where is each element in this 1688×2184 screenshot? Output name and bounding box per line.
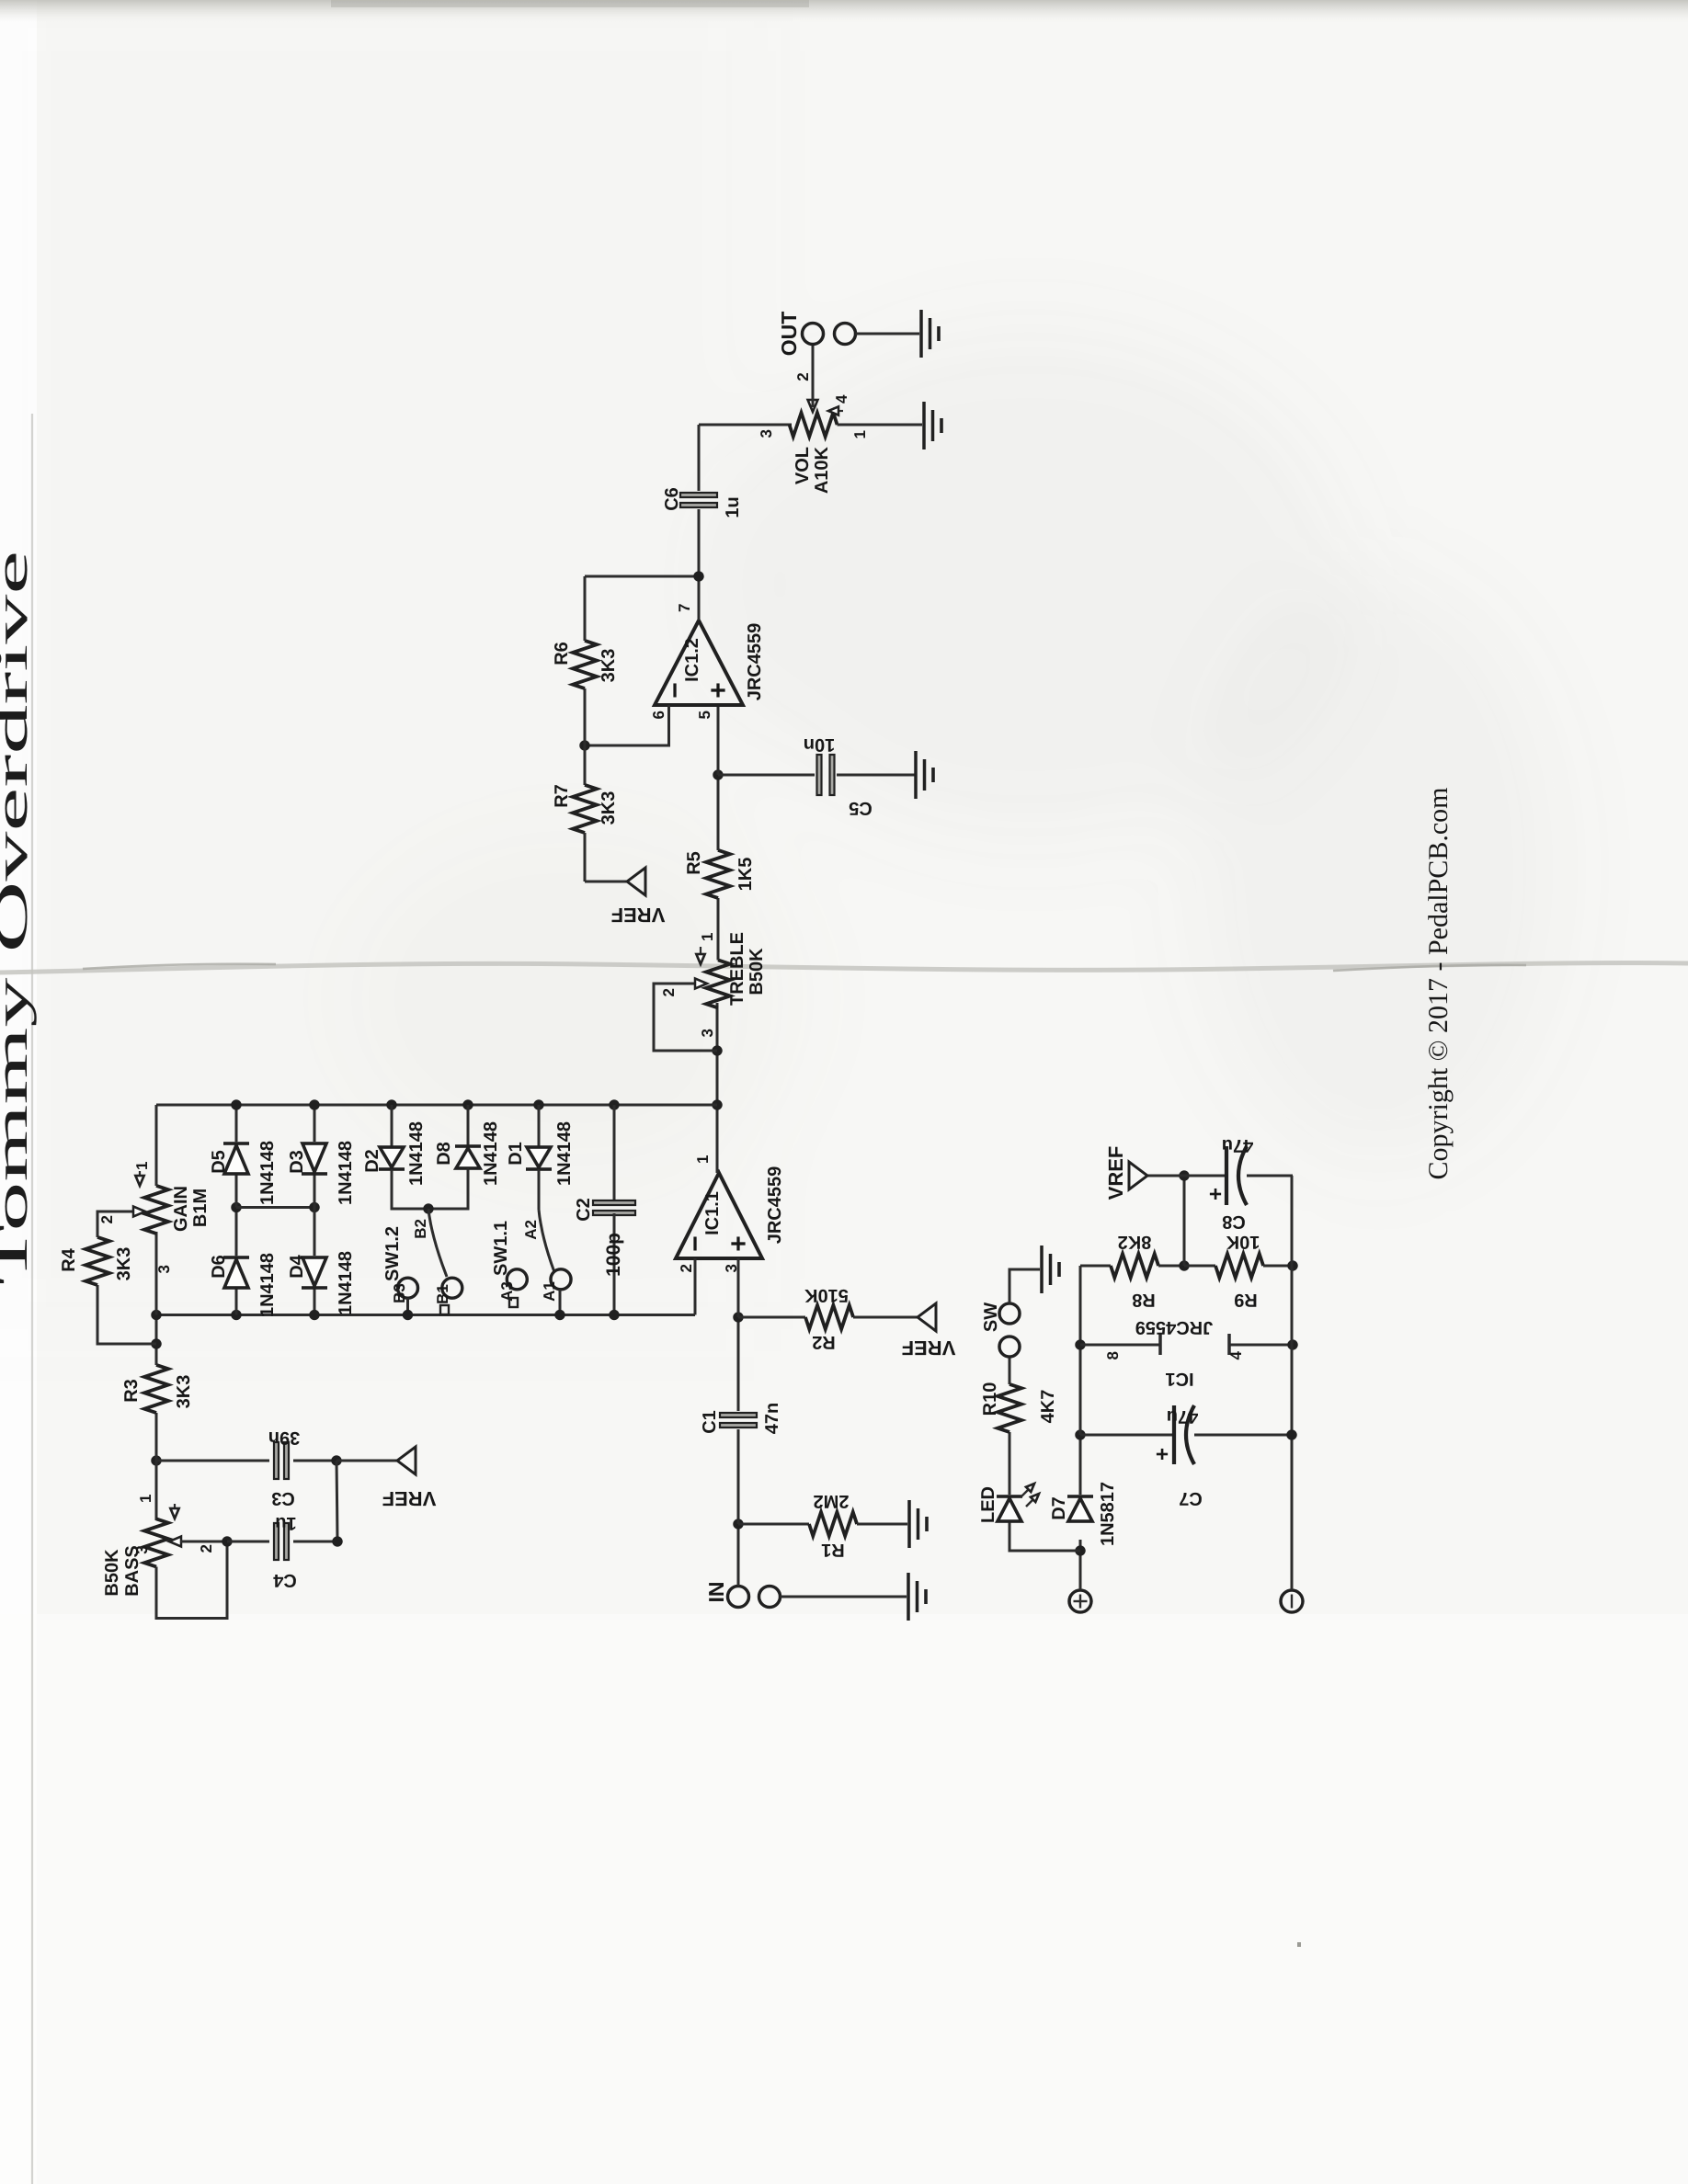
wire node A to BASS terminal1: [155, 1461, 158, 1520]
wire divider to C8: [1183, 1176, 1186, 1266]
switch SW pole right: [999, 1303, 1020, 1324]
svg-text:−: −: [680, 1235, 711, 1252]
svg-text:1: 1: [137, 1495, 154, 1503]
svg-text:D2: D2: [362, 1149, 382, 1173]
svg-text:R9: R9: [1234, 1290, 1258, 1310]
capacitor C1 labels: [700, 1403, 782, 1434]
svg-text:JRC4559: JRC4559: [745, 623, 765, 701]
svg-text:GAIN: GAIN: [171, 1186, 191, 1232]
svg-text:D6: D6: [209, 1255, 229, 1279]
svg-text:1N5817: 1N5817: [1098, 1482, 1118, 1546]
svg-text:+: +: [1203, 1188, 1228, 1200]
svg-text:3: 3: [699, 1029, 716, 1037]
resistor R6 labels: [552, 642, 619, 682]
ground OUT sleeve: [921, 310, 939, 358]
IC1 pin8 number: [1104, 1351, 1122, 1359]
svg-text:5: 5: [696, 711, 713, 719]
capacitor C6: [680, 425, 717, 507]
capacitor C4 labels: [272, 1513, 296, 1590]
switch SW1.1 pole A3: [507, 1269, 527, 1290]
node IC1.1 pin3: [733, 1312, 743, 1322]
switch SW1.2 pole B3: [398, 1278, 418, 1298]
resistor R6: [573, 576, 597, 745]
svg-text:Tommy Overdrive: Tommy Overdrive: [0, 551, 37, 1285]
svg-text:+: +: [703, 682, 734, 699]
svg-text:R8: R8: [1132, 1290, 1156, 1310]
DC jack positive: [1069, 1590, 1091, 1612]
svg-text:2M2: 2M2: [814, 1491, 850, 1511]
op-amp IC1.1 pin numbers: [678, 1155, 740, 1273]
OUT jack label: [777, 312, 801, 357]
potentiometer TREBLE: [706, 898, 730, 1008]
wire power rail to R8: [1079, 1266, 1082, 1435]
svg-text:C4: C4: [272, 1570, 296, 1590]
switch SW1.2 pole B1: [442, 1278, 462, 1298]
svg-text:3K3: 3K3: [114, 1247, 134, 1281]
svg-text:1N4148: 1N4148: [481, 1121, 501, 1186]
resistor R2: [738, 1305, 918, 1329]
wire A1 to rail: [559, 1290, 562, 1315]
svg-text:SW1.2: SW1.2: [382, 1226, 403, 1281]
LED emission arrows: [1021, 1484, 1039, 1507]
IC1 power labels: [1135, 1317, 1214, 1389]
net VREF flag at node B: [336, 1447, 416, 1474]
svg-text:Copyright © 2017 - PedalPCB.co: Copyright © 2017 - PedalPCB.com: [1423, 788, 1454, 1180]
resistor R3: [144, 1315, 168, 1462]
capacitor C7: [1080, 1405, 1293, 1464]
svg-text:47n: 47n: [762, 1403, 782, 1434]
resistor R4 labels: [59, 1247, 134, 1281]
wire feedback left rail: [156, 1314, 695, 1316]
op-amp IC1.2 pin numbers: [650, 604, 713, 720]
wire SW to ground: [1009, 1269, 1040, 1303]
svg-text:2: 2: [794, 372, 812, 381]
svg-text:510K: 510K: [804, 1285, 849, 1305]
capacitor C8 plus: [1203, 1188, 1228, 1200]
svg-text:VREF: VREF: [382, 1487, 437, 1510]
potentiometer TREBLE labels: [660, 932, 767, 1037]
svg-text:3: 3: [758, 429, 775, 438]
svg-text:VREF: VREF: [611, 904, 666, 927]
wire bass terminal3 loop: [156, 1541, 227, 1619]
treble phantom wiper mark: [696, 947, 704, 964]
wire OUT sleeve to ground: [856, 333, 920, 336]
diode D7 labels: [1049, 1482, 1118, 1546]
capacitor C2 labels: [574, 1198, 624, 1277]
capacitor C2: [593, 1105, 635, 1315]
wire feedback right rail: [156, 1104, 717, 1107]
net VREF label at R7: [611, 904, 666, 927]
svg-text:3K3: 3K3: [599, 791, 619, 825]
svg-text:1u: 1u: [723, 496, 743, 518]
svg-text:1u: 1u: [275, 1513, 296, 1533]
node rail D1: [533, 1099, 543, 1109]
wire IC1.1 output row: [716, 1003, 719, 1173]
node LED branch: [1075, 1545, 1085, 1555]
svg-text:100p: 100p: [603, 1233, 624, 1277]
wire C4 to node B: [332, 1461, 342, 1547]
bass wiper arrow: [169, 1537, 227, 1547]
OUT jack sleeve: [835, 324, 856, 345]
capacitor C3 labels: [268, 1428, 300, 1508]
diode D6: [223, 1208, 249, 1315]
scanner edge shadow right: [0, 0, 1688, 22]
node bass wiper C4: [222, 1536, 232, 1546]
wire IC1.2 pin5 stub: [717, 705, 720, 775]
svg-text:R1: R1: [821, 1540, 845, 1560]
switch SW1.1 labels: [491, 1220, 558, 1302]
wire treble wiper loop: [654, 984, 717, 1051]
svg-text:D5: D5: [209, 1150, 229, 1174]
VOL wiper arrow and wire: [808, 345, 818, 413]
resistor R10 labels: [980, 1382, 1058, 1424]
svg-text:IC1.1: IC1.1: [702, 1191, 723, 1235]
svg-text:1N4148: 1N4148: [336, 1141, 356, 1205]
node SW1.2 common: [423, 1203, 433, 1213]
wire IC1.1 pin3 stub: [737, 1258, 740, 1317]
wire IN sleeve to ground: [781, 1596, 907, 1598]
potentiometer VOL labels: [758, 372, 869, 494]
resistor R5 labels: [684, 851, 756, 891]
VOL phantom wiper mark: [828, 406, 843, 415]
capacitor C4: [227, 1523, 337, 1560]
svg-text:3: 3: [133, 1545, 151, 1553]
resistor R8 labels: [1118, 1232, 1156, 1310]
node input junction: [733, 1519, 743, 1529]
svg-text:1K5: 1K5: [736, 858, 756, 892]
gain phantom wiper mark: [135, 1171, 143, 1186]
svg-text:3: 3: [155, 1265, 173, 1273]
svg-text:TREBLE: TREBLE: [727, 932, 747, 1006]
capacitor C8: [1184, 1146, 1293, 1205]
wire IC1.2 output: [698, 509, 701, 620]
svg-text:4: 4: [1227, 1350, 1245, 1359]
svg-text:3K3: 3K3: [599, 649, 619, 683]
node C8 VREF: [1179, 1170, 1189, 1180]
node rail C2 left: [609, 1310, 619, 1320]
IC1 pin4 stub: [1229, 1334, 1293, 1355]
OUT jack tip: [803, 324, 824, 345]
resistor R8: [1080, 1254, 1184, 1278]
svg-text:B1M: B1M: [190, 1189, 211, 1227]
node rail C2 right: [609, 1099, 619, 1109]
svg-text:1: 1: [851, 430, 869, 438]
ground C5: [916, 751, 933, 799]
diode D2 labels: [362, 1121, 427, 1186]
title Tommy Overdrive: [0, 551, 37, 1285]
node rail D5: [231, 1099, 241, 1109]
op-amp IC1.1: [676, 1173, 762, 1258]
svg-text:47u: 47u: [1167, 1406, 1198, 1427]
svg-text:8: 8: [1104, 1351, 1122, 1359]
svg-text:IC1.2: IC1.2: [682, 638, 702, 682]
svg-text:R3: R3: [121, 1379, 142, 1403]
diode D5: [223, 1105, 249, 1208]
svg-text:B50K: B50K: [747, 948, 767, 995]
svg-text:A10K: A10K: [812, 446, 832, 494]
resistor R4: [86, 1211, 156, 1344]
node pin8 tap: [1075, 1339, 1085, 1349]
switch A3 open-square mark: [509, 1298, 518, 1307]
svg-text:IC1: IC1: [1165, 1369, 1193, 1389]
svg-text:VREF: VREF: [1104, 1146, 1127, 1200]
svg-text:VREF: VREF: [902, 1337, 956, 1359]
node VREF divider: [1179, 1260, 1189, 1270]
node rail R3 gain3: [151, 1310, 161, 1320]
svg-text:JRC4559: JRC4559: [1135, 1317, 1214, 1337]
svg-text:47u: 47u: [1222, 1135, 1253, 1155]
svg-text:1N4148: 1N4148: [554, 1121, 575, 1186]
svg-text:C3: C3: [271, 1488, 295, 1508]
svg-text:1N4148: 1N4148: [257, 1253, 278, 1317]
svg-text:D1: D1: [506, 1142, 526, 1166]
diode D3 labels: [287, 1141, 356, 1205]
switch SW label: [981, 1302, 1001, 1332]
net VREF label power: [1104, 1146, 1127, 1200]
node B C3 C4: [331, 1455, 341, 1465]
svg-text:B2: B2: [412, 1219, 429, 1239]
svg-text:+: +: [1150, 1448, 1175, 1461]
gain wiper arrow: [133, 1207, 145, 1217]
node C6 junction: [693, 571, 703, 581]
resistor R10: [998, 1357, 1021, 1432]
node rail B3: [403, 1310, 413, 1320]
wire C6 to VOL: [699, 424, 792, 427]
node rail D3: [309, 1099, 319, 1109]
wire DC+ to rail: [1079, 1540, 1082, 1590]
svg-text:1N4148: 1N4148: [336, 1251, 356, 1315]
diode D8 labels: [434, 1121, 501, 1186]
wire gain terminal3 lead: [155, 1232, 158, 1315]
svg-text:4K7: 4K7: [1038, 1390, 1058, 1424]
svg-text:A2: A2: [522, 1220, 540, 1240]
net VREF label at R2: [902, 1337, 956, 1359]
svg-text:LED: LED: [978, 1486, 998, 1523]
paper crease line: [0, 963, 1688, 973]
svg-text:R5: R5: [684, 851, 704, 875]
resistor R7: [573, 745, 597, 882]
capacitor C7 labels: [1167, 1406, 1203, 1508]
node R9 ground: [1287, 1260, 1297, 1270]
bass phantom wiper mark: [170, 1504, 178, 1519]
node D5 D6 mid: [231, 1202, 241, 1212]
svg-text:39n: 39n: [268, 1428, 300, 1448]
switch SW1.1 lever: [539, 1210, 554, 1272]
ground IN sleeve: [908, 1573, 926, 1621]
svg-text:B1: B1: [434, 1284, 451, 1304]
wire IC1.2 pin6 feedback: [585, 705, 669, 745]
svg-text:+: +: [724, 1235, 754, 1252]
potentiometer GAIN: [144, 1186, 168, 1234]
resistor R3 labels: [121, 1375, 194, 1409]
potentiometer VOL: [790, 413, 923, 437]
IC1 pin4 number: [1227, 1350, 1245, 1359]
node rail D8: [462, 1099, 473, 1109]
svg-text:D4: D4: [287, 1254, 307, 1278]
IN jack label: [704, 1582, 728, 1603]
svg-text:1: 1: [133, 1162, 151, 1170]
svg-text:D3: D3: [287, 1150, 307, 1174]
diode D5 labels: [209, 1141, 278, 1205]
wire ground rail: [1291, 1176, 1294, 1590]
copyright line: [1423, 788, 1454, 1180]
scan shading patches: [0, 0, 1563, 1329]
switch SW pole left: [999, 1337, 1020, 1357]
wire IC1.1 pin2 stub: [694, 1258, 697, 1315]
svg-text:OUT: OUT: [777, 312, 801, 357]
svg-text:8K2: 8K2: [1118, 1232, 1152, 1252]
diode LED label: [978, 1486, 998, 1523]
diode D8: [430, 1105, 481, 1209]
svg-text:JRC4559: JRC4559: [765, 1166, 785, 1245]
svg-text:6: 6: [650, 711, 667, 719]
svg-text:1: 1: [694, 1155, 712, 1164]
wire R6 to output node: [585, 575, 698, 578]
node C7 top: [1075, 1429, 1085, 1439]
treble wiper arrow: [695, 979, 707, 989]
resistor R5: [706, 775, 730, 898]
svg-text:7: 7: [676, 604, 693, 612]
svg-text:SW1.1: SW1.1: [491, 1221, 511, 1276]
net VREF label at node B: [382, 1487, 437, 1510]
svg-text:C2: C2: [574, 1198, 594, 1222]
diode D1: [526, 1105, 552, 1210]
resistor R1: [738, 1512, 907, 1536]
net VREF flag power: [1129, 1162, 1184, 1189]
svg-text:R7: R7: [552, 784, 572, 808]
wire IN tip to input node: [737, 1524, 740, 1587]
net VREF flag at R7: [585, 868, 645, 895]
node pin4 ground: [1287, 1339, 1297, 1349]
svg-text:4: 4: [833, 394, 850, 404]
svg-text:2: 2: [198, 1544, 215, 1553]
svg-text:R10: R10: [980, 1382, 1000, 1416]
diode D1 labels: [506, 1121, 575, 1186]
resistor R9: [1184, 1254, 1293, 1278]
capacitor C1: [720, 1317, 757, 1524]
svg-text:3K3: 3K3: [174, 1375, 194, 1409]
svg-text:2: 2: [98, 1215, 116, 1223]
svg-text:1N4148: 1N4148: [257, 1141, 278, 1205]
svg-text:−: −: [660, 682, 690, 699]
svg-text:R2: R2: [812, 1332, 836, 1352]
potentiometer GAIN labels: [98, 1162, 211, 1274]
node A R3 C3: [151, 1455, 161, 1465]
diode D6 labels: [209, 1253, 278, 1317]
node rail D6: [231, 1310, 241, 1320]
svg-text:2: 2: [660, 988, 678, 996]
IN jack sleeve: [759, 1587, 781, 1608]
wire LED branch: [1009, 1521, 1080, 1551]
svg-text:10n: 10n: [804, 734, 835, 755]
diode D2: [379, 1105, 428, 1209]
svg-text:1N4148: 1N4148: [406, 1121, 427, 1186]
svg-text:R6: R6: [552, 642, 572, 665]
svg-text:C1: C1: [700, 1410, 720, 1434]
potentiometer BASS labels: [102, 1495, 215, 1597]
wire diode mid connector: [236, 1206, 314, 1209]
node rail A1: [554, 1310, 565, 1320]
svg-text:10K: 10K: [1226, 1232, 1260, 1252]
node C7 ground: [1286, 1429, 1296, 1439]
svg-text:B50K: B50K: [102, 1549, 122, 1597]
capacitor C5: [718, 755, 916, 795]
svg-text:A1: A1: [541, 1281, 558, 1302]
node R4 tee: [151, 1338, 161, 1348]
svg-text:SW: SW: [981, 1302, 1001, 1332]
svg-text:C7: C7: [1179, 1488, 1203, 1508]
node D3 D4 mid: [309, 1202, 319, 1212]
tiny scan speck: [1297, 1942, 1301, 1947]
IC1 pin8 stub: [1080, 1334, 1160, 1355]
resistor R2 labels: [804, 1285, 849, 1352]
capacitor C3: [156, 1442, 336, 1479]
page edge line top: [31, 414, 33, 2184]
capacitor C6 labels: [662, 487, 743, 518]
wire B3 to rail: [406, 1298, 409, 1314]
diode LED: [997, 1432, 1022, 1521]
node C5 junction: [713, 769, 723, 779]
op-amp IC1.2 part label: [745, 623, 765, 701]
svg-text:2: 2: [678, 1264, 695, 1272]
diode D7: [1067, 1435, 1093, 1521]
resistor R9 labels: [1226, 1232, 1260, 1310]
svg-text:C5: C5: [849, 798, 873, 818]
op-amp IC1.2: [655, 620, 743, 705]
switch SW1.1 pole A1: [551, 1269, 571, 1290]
svg-text:B3: B3: [391, 1283, 408, 1303]
svg-text:R4: R4: [59, 1247, 79, 1271]
resistor R1 labels: [814, 1491, 850, 1560]
svg-text:C8: C8: [1222, 1211, 1246, 1232]
node feedback rail tap: [712, 1099, 722, 1109]
DC jack negative: [1281, 1590, 1303, 1612]
net VREF flag at R2: [918, 1303, 936, 1331]
svg-text:VOL: VOL: [793, 447, 813, 484]
switch B1 open-square mark: [440, 1305, 449, 1314]
diode D4: [302, 1208, 327, 1315]
wire gain terminal1 to right rail: [155, 1105, 158, 1186]
potentiometer BASS: [144, 1519, 168, 1566]
switch SW1.2 lever: [428, 1209, 447, 1277]
resistor R7 labels: [552, 784, 619, 825]
node treble wiper tap: [712, 1045, 722, 1055]
node rail D2: [386, 1099, 396, 1109]
ground R1: [909, 1500, 927, 1548]
IN jack tip: [728, 1587, 749, 1608]
node rail D4: [309, 1310, 319, 1320]
capacitor C8 labels: [1222, 1135, 1253, 1232]
paper lighter lower margin: [0, 1614, 1688, 2184]
ground VOL: [924, 402, 941, 449]
node R6 R7 junction: [579, 740, 589, 750]
svg-text:IN: IN: [704, 1582, 728, 1603]
diode D4 labels: [287, 1251, 356, 1315]
op-amp IC1.1 part label: [765, 1166, 785, 1245]
capacitor C7 plus: [1150, 1448, 1175, 1461]
ground SW: [1042, 1246, 1059, 1293]
svg-text:1: 1: [699, 933, 716, 941]
diode D3: [302, 1105, 327, 1208]
capacitor C5 labels: [804, 734, 873, 818]
svg-text:C6: C6: [662, 487, 682, 511]
svg-text:D8: D8: [434, 1142, 454, 1166]
switch SW1.2 labels: [382, 1219, 451, 1304]
svg-text:D7: D7: [1049, 1496, 1069, 1520]
